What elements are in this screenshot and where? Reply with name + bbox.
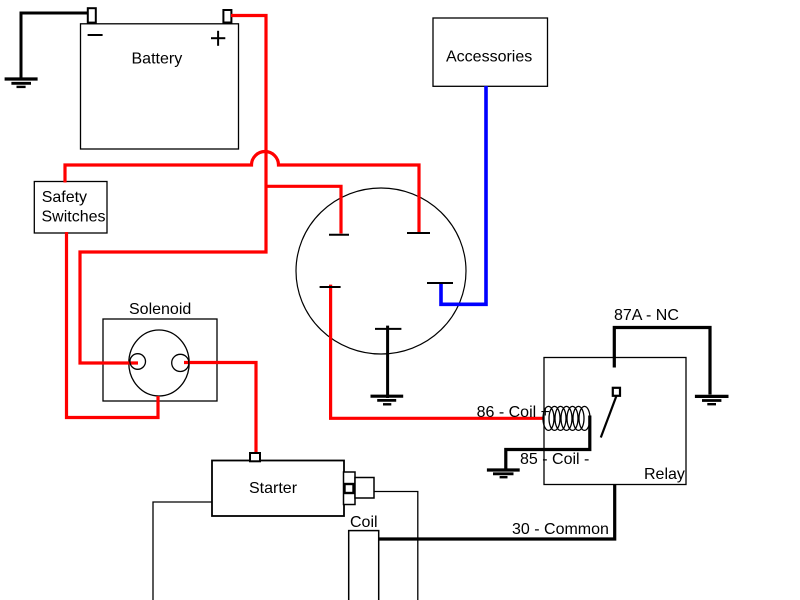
wire: relay coil - to ground (85) bbox=[506, 416, 590, 469]
svg-text:Battery: Battery bbox=[132, 51, 183, 68]
wire: starter case to ground run bbox=[153, 502, 212, 600]
starter solenoid flange bbox=[344, 472, 356, 505]
solenoid terminal left bbox=[130, 354, 146, 370]
relay contact point bbox=[613, 388, 620, 396]
battery terminal - post bbox=[88, 8, 96, 22]
starter solenoid inner contact bbox=[345, 484, 354, 493]
wire: battery negative to ground bbox=[21, 13, 89, 79]
wire: branch to ignition terminal B bbox=[265, 186, 342, 233]
svg-text:Relay: Relay bbox=[644, 466, 685, 483]
solenoid terminal right bbox=[172, 354, 189, 371]
wire: ignition ground stub bbox=[386, 326, 389, 398]
svg-text:Coil: Coil bbox=[350, 514, 378, 531]
svg-text:87A - NC: 87A - NC bbox=[614, 307, 679, 324]
ground: battery negative bbox=[5, 79, 38, 87]
relay pin 87A and wire to ground bbox=[614, 328, 710, 395]
battery plus label bbox=[211, 31, 225, 46]
wire: battery + to solenoid (through junction) bbox=[80, 16, 266, 364]
wire: safety switches to solenoid coil bbox=[67, 232, 159, 418]
svg-text:86 - Coil +: 86 - Coil + bbox=[477, 404, 550, 421]
relay coil winding bbox=[543, 406, 590, 430]
battery B1 bbox=[81, 24, 239, 149]
svg-text:Solenoid: Solenoid bbox=[129, 301, 191, 318]
ignition switch body bbox=[296, 188, 466, 354]
svg-text:Switches: Switches bbox=[42, 208, 106, 225]
ground: relay 87A bbox=[695, 396, 729, 404]
solenoid body circle bbox=[129, 330, 189, 396]
coil box bbox=[349, 531, 379, 600]
starter terminal post bbox=[250, 453, 260, 461]
ground: ignition switch bbox=[371, 396, 404, 404]
safety switches box bbox=[34, 182, 107, 234]
starter box bbox=[212, 461, 344, 517]
wire: safety switches to ignition terminal (hops over battery wire) bbox=[65, 152, 419, 233]
starter solenoid terminal block bbox=[355, 478, 374, 499]
accessories box bbox=[433, 18, 548, 86]
ignition terminal tick top-right bbox=[407, 232, 430, 234]
wire: solenoid output to starter bbox=[184, 363, 256, 454]
wire: starter solenoid terminal to coil circuit bbox=[374, 492, 418, 600]
battery minus label bbox=[88, 34, 103, 36]
ignition terminal tick mid-left bbox=[320, 286, 341, 288]
ignition terminal tick bottom bbox=[375, 328, 401, 330]
svg-text:Accessories: Accessories bbox=[446, 48, 532, 65]
ignition terminal tick top-left bbox=[329, 234, 349, 236]
wire: accessories to ignition (blue) bbox=[441, 86, 486, 304]
wire: 30 common (coil to relay) bbox=[379, 480, 615, 540]
wire: ignition to relay coil 86 bbox=[331, 285, 545, 419]
svg-text:Safety: Safety bbox=[42, 189, 87, 206]
svg-text:30 - Common: 30 - Common bbox=[512, 521, 609, 538]
relay switch arm bbox=[601, 396, 617, 437]
relay box bbox=[544, 358, 686, 485]
battery terminal + post bbox=[223, 10, 231, 23]
ground: relay 85 bbox=[487, 470, 520, 477]
ignition terminal tick mid-right bbox=[427, 282, 453, 284]
svg-text:Starter: Starter bbox=[249, 480, 298, 497]
solenoid box bbox=[103, 319, 217, 401]
svg-text:85 - Coil -: 85 - Coil - bbox=[520, 451, 589, 468]
